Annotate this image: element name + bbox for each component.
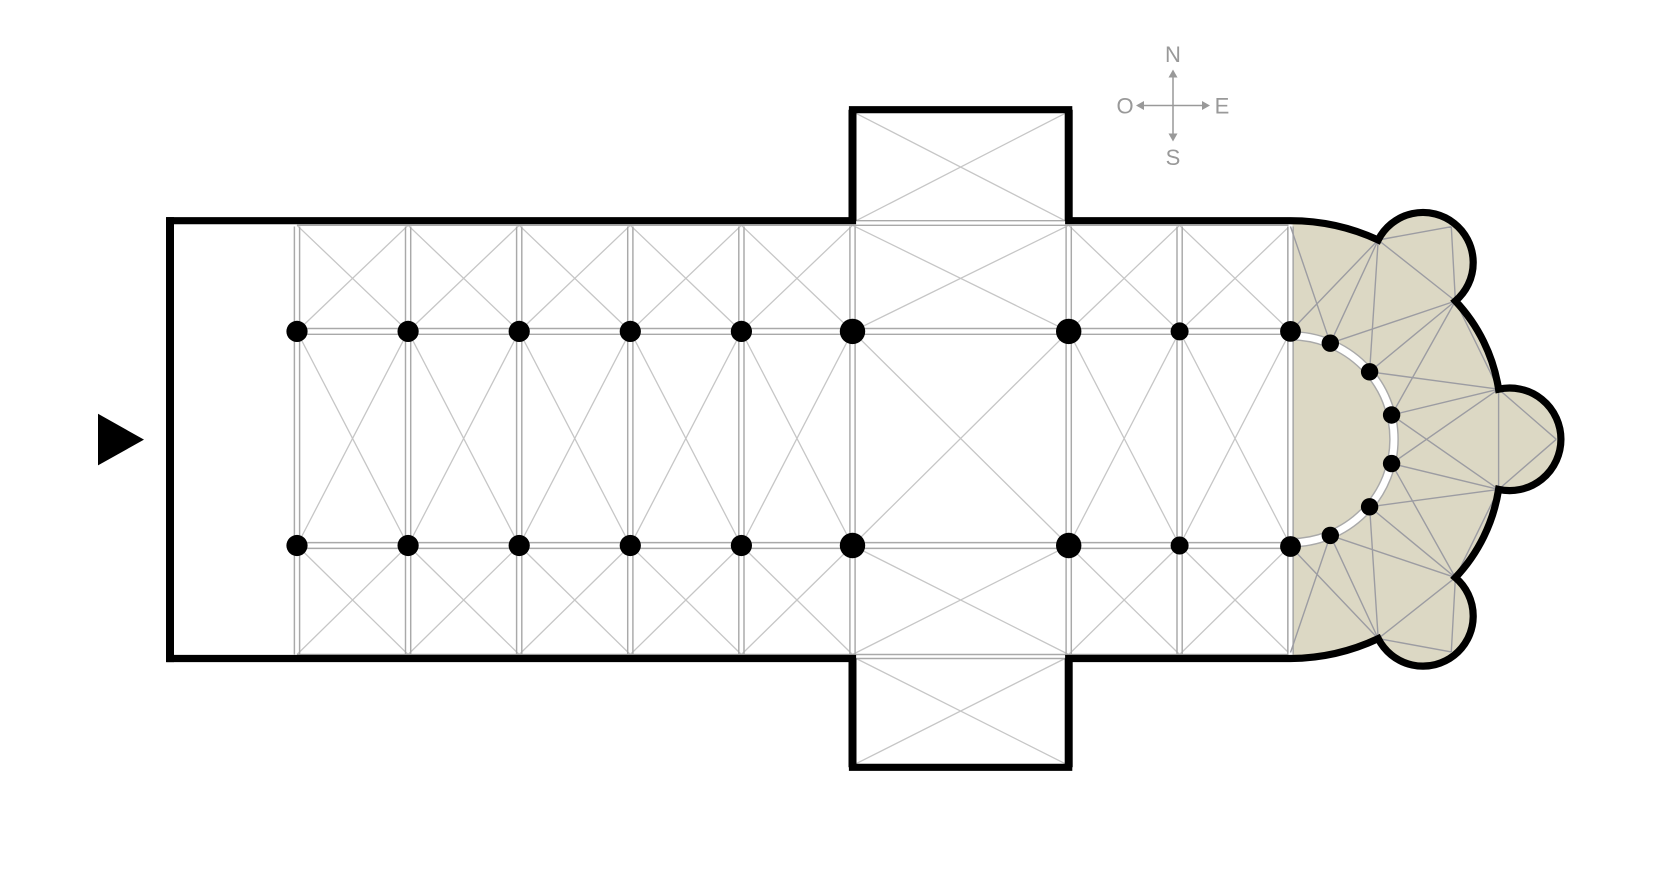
svg-text:N: N — [1165, 42, 1181, 67]
svg-text:E: E — [1215, 94, 1230, 119]
svg-text:S: S — [1166, 145, 1181, 170]
svg-text:O: O — [1116, 94, 1133, 119]
